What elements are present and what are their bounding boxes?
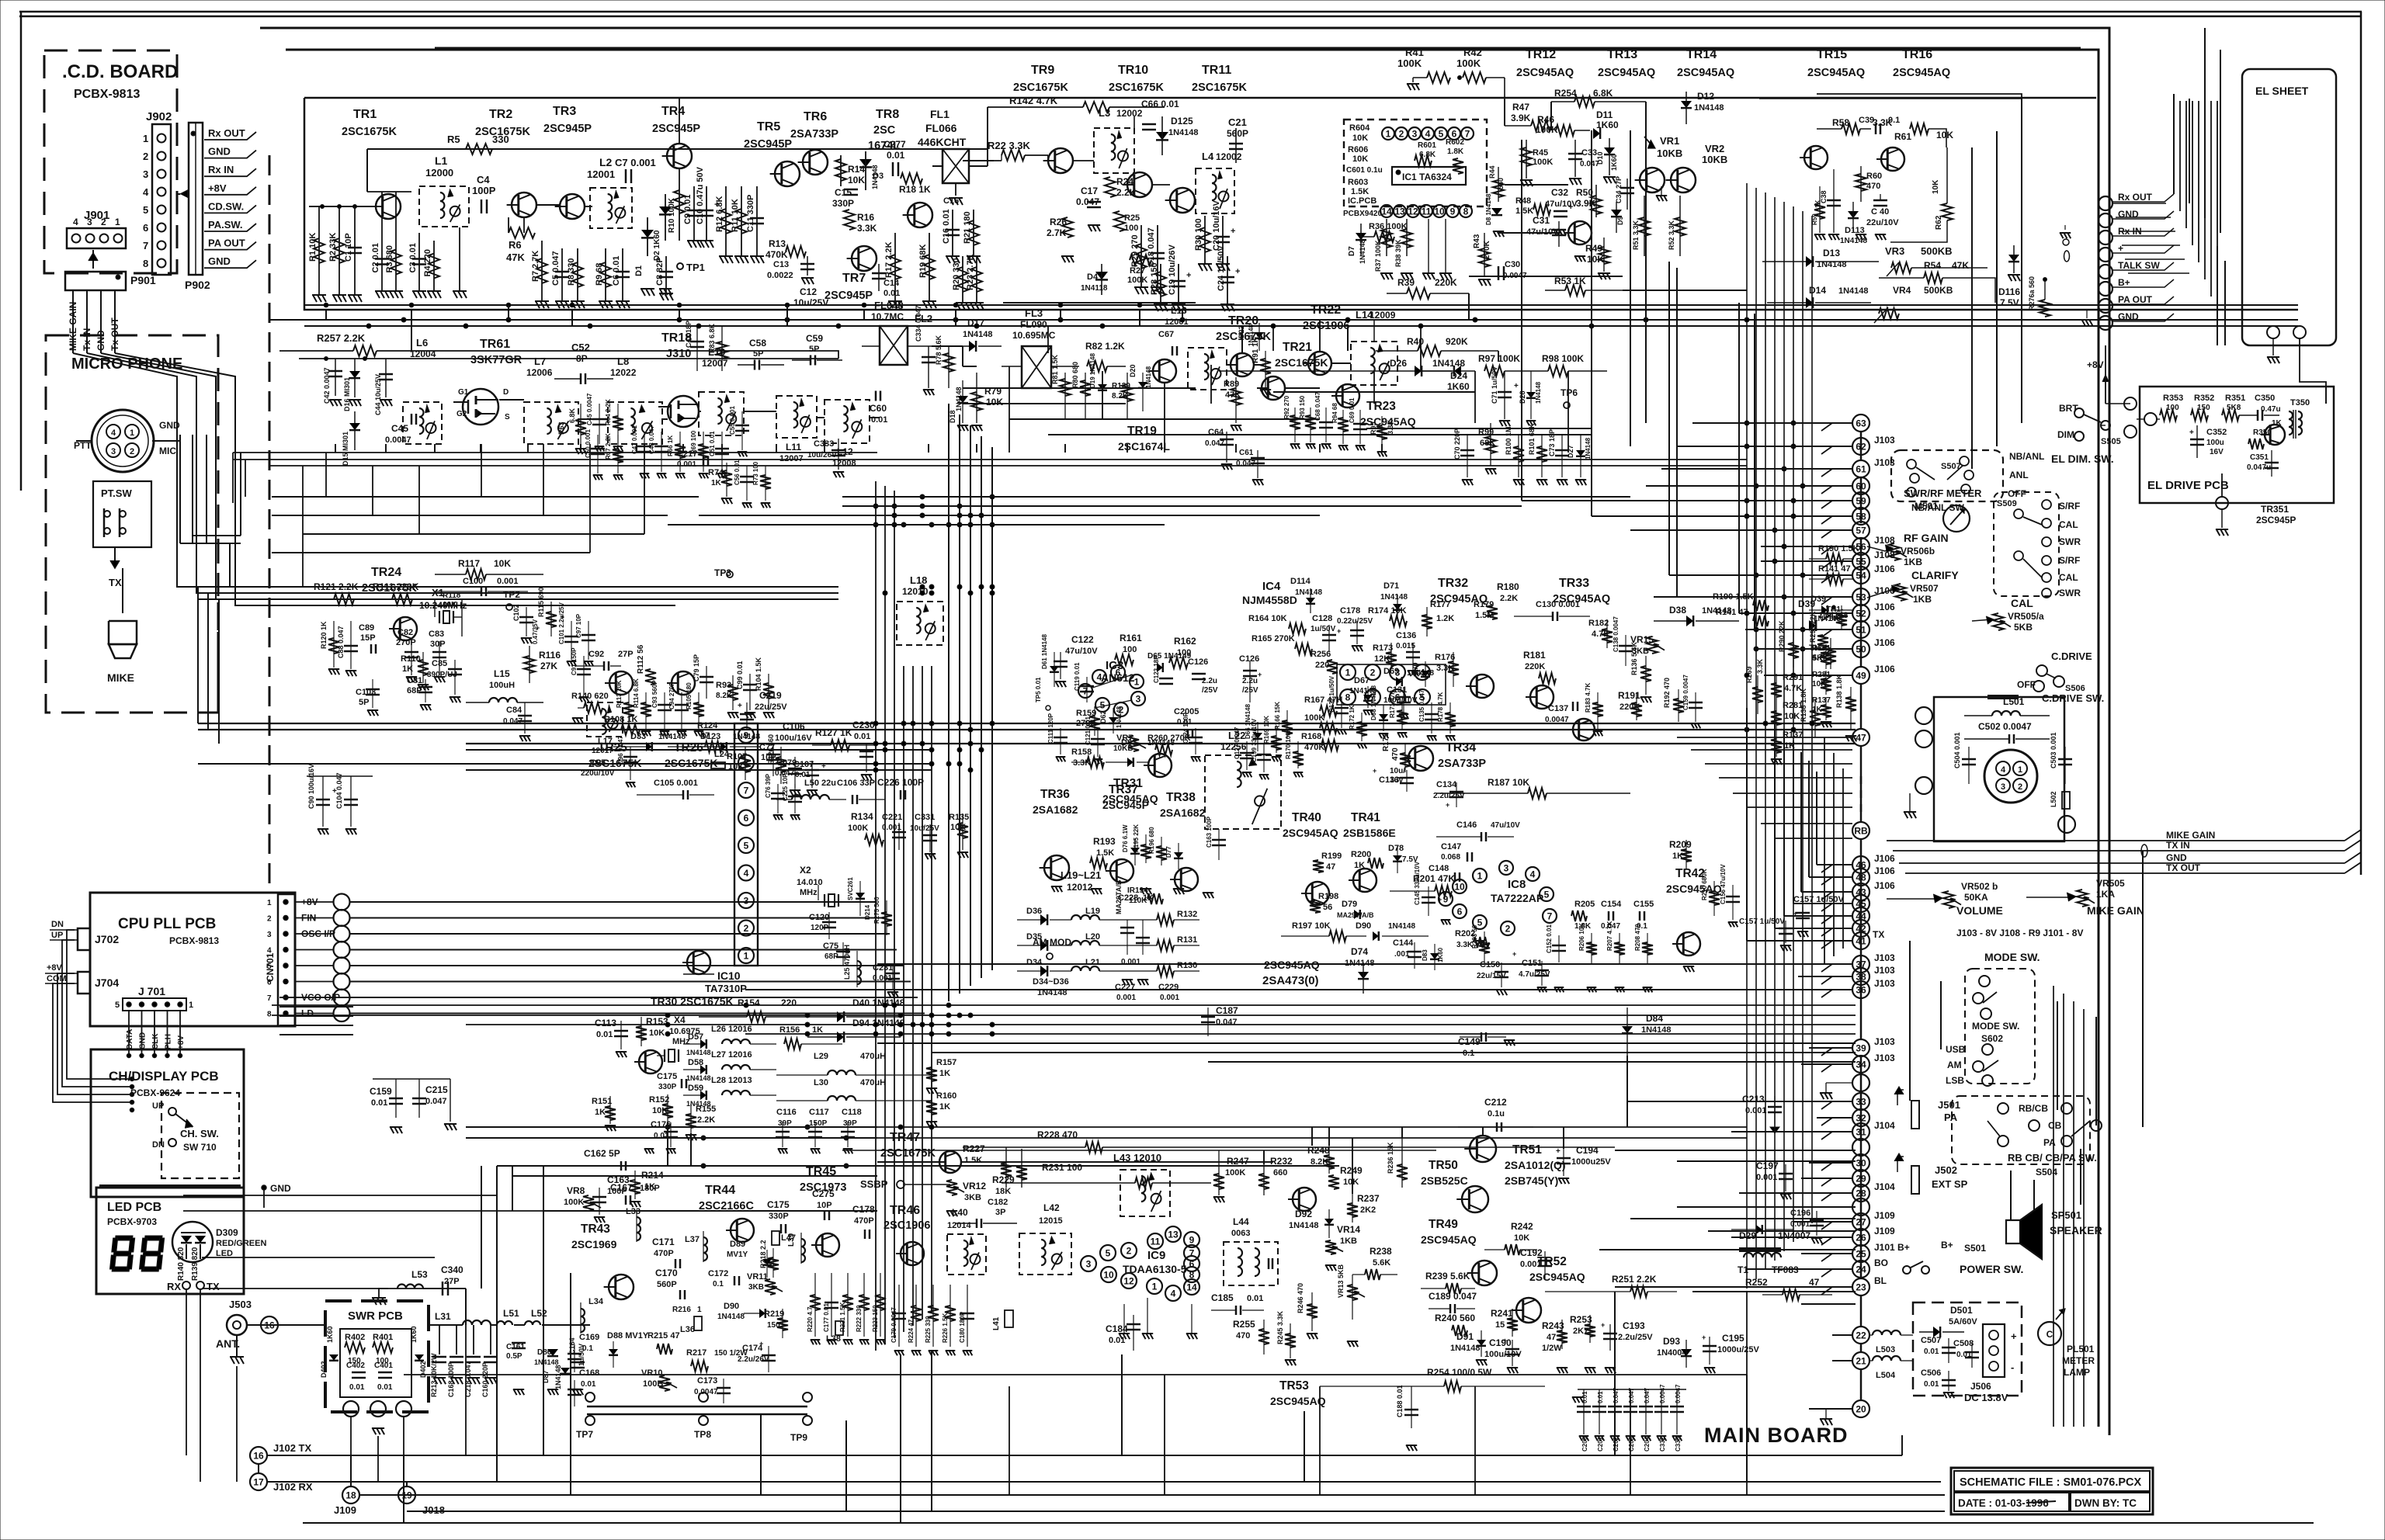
svg-text:C52: C52 [571, 342, 590, 353]
svg-text:0.47u: 0.47u [2261, 405, 2281, 414]
svg-text:TR52: TR52 [1537, 1255, 1567, 1268]
svg-text:2SC945AQ: 2SC945AQ [1270, 1395, 1326, 1407]
svg-text:1: 1 [744, 951, 749, 962]
svg-text:C3 0.01: C3 0.01 [408, 243, 418, 273]
svg-text:49: 49 [1856, 671, 1866, 682]
svg-text:5P: 5P [359, 698, 369, 707]
D68 col [1370, 685, 1388, 731]
svg-text:100: 100 [1123, 645, 1137, 654]
svg-text:0.01: 0.01 [1597, 1391, 1604, 1403]
svg-text:TR2: TR2 [489, 108, 512, 121]
svg-text:R124: R124 [697, 721, 718, 730]
svg-text:500KB: 500KB [1924, 285, 1953, 296]
svg-text:C96 0.047: C96 0.047 [617, 736, 624, 765]
svg-text:8: 8 [1463, 206, 1469, 217]
svg-text:C92: C92 [588, 650, 604, 659]
svg-text:1K60: 1K60 [1437, 947, 1444, 962]
C10 col [696, 166, 719, 248]
svg-text:10KB: 10KB [1657, 147, 1682, 159]
C15 cap [832, 187, 858, 209]
svg-text:C185: C185 [1211, 1292, 1234, 1303]
svg-text:C136: C136 [1396, 631, 1416, 640]
svg-text:1N4148: 1N4148 [871, 165, 879, 189]
svg-text:C146: C146 [1456, 820, 1477, 830]
C106 label [775, 721, 877, 751]
svg-text:R401: R401 [373, 1333, 393, 1342]
R199 label [1313, 852, 1342, 872]
svg-text:10K: 10K [494, 558, 511, 569]
svg-text:6: 6 [744, 813, 749, 824]
mic labels [74, 420, 180, 456]
C6 col [612, 248, 630, 308]
svg-text:S602: S602 [1981, 1033, 2003, 1044]
C231 label [873, 963, 900, 997]
C14 cap [872, 264, 900, 298]
C83 cap [429, 630, 446, 675]
svg-text:R231 100: R231 100 [1042, 1162, 1082, 1173]
svg-text:4: 4 [73, 217, 78, 227]
C75 label [823, 942, 850, 966]
R166 col [1274, 702, 1293, 739]
svg-text:LSB: LSB [1946, 1075, 1964, 1086]
svg-text:C184: C184 [1106, 1323, 1128, 1334]
D113 diode [1840, 202, 1867, 245]
D13 row [1762, 248, 1879, 269]
label TR44 [699, 1184, 754, 1212]
svg-text:R164 10K: R164 10K [1248, 614, 1287, 623]
NB/ANL labels [1911, 451, 2044, 513]
svg-text:+: + [1235, 267, 1240, 276]
svg-text:2SA1012(Q): 2SA1012(Q) [1505, 1159, 1566, 1171]
svg-text:S/RF: S/RF [2059, 501, 2080, 512]
R48 C32 [1515, 187, 1578, 217]
C99 0.01 [736, 661, 757, 718]
meter lamp PL501 [2038, 1309, 2065, 1345]
svg-text:3: 3 [1412, 129, 1418, 140]
AM MOD label [1033, 937, 1071, 959]
transistor TR30b [634, 1050, 662, 1073]
svg-text:C195: C195 [1722, 1333, 1744, 1344]
svg-text:FL3: FL3 [1025, 307, 1043, 319]
svg-text:2: 2 [744, 923, 749, 934]
left column verticals [466, 1122, 691, 1325]
svg-text:C213: C213 [1742, 1094, 1765, 1105]
svg-text:R141 47: R141 47 [1818, 564, 1851, 574]
svg-text:C402: C402 [346, 1361, 365, 1370]
svg-text:PCBX-9813: PCBX-9813 [74, 88, 140, 101]
svg-text:6: 6 [1116, 668, 1121, 678]
filter FL1 [932, 149, 988, 205]
svg-text:R151: R151 [592, 1097, 612, 1106]
L41 label [992, 1310, 1013, 1330]
svg-text:C154: C154 [1601, 900, 1622, 909]
svg-text:7: 7 [1465, 129, 1470, 140]
svg-text:FL090: FL090 [1020, 319, 1047, 330]
svg-text:R162: R162 [1174, 636, 1196, 647]
svg-text:L28 12013: L28 12013 [711, 1076, 752, 1085]
svg-text:MA29WA/B: MA29WA/B [1337, 911, 1374, 919]
svg-text:47u/10V: 47u/10V [1065, 647, 1098, 656]
svg-text:R350: R350 [2253, 428, 2272, 437]
svg-text:D36: D36 [1026, 907, 1042, 916]
C126b label [1239, 654, 1262, 702]
svg-text:10: 10 [1434, 206, 1445, 217]
CH.SW contacts [152, 1101, 193, 1150]
svg-text:C71 1u/50V: C71 1u/50V [1491, 366, 1498, 404]
svg-text:13: 13 [1394, 206, 1405, 217]
label TR42 [1666, 867, 1722, 895]
R248 label [1307, 1145, 1335, 1174]
R237 label [1347, 1193, 1380, 1223]
wire junction dots [130, 1077, 134, 1112]
R247 label [1213, 1150, 1249, 1202]
transistor TR13d [1635, 168, 1665, 192]
label TR45 [800, 1165, 846, 1194]
svg-text:18K: 18K [995, 1187, 1011, 1196]
C172 label [708, 1269, 739, 1289]
transistor TR38d [1170, 868, 1198, 891]
supply wire 462 [299, 357, 838, 361]
svg-text:EL DRIVE PCB: EL DRIVE PCB [2147, 479, 2229, 492]
svg-text:Rx OUT: Rx OUT [2118, 192, 2153, 203]
S509 contacts2 [2014, 551, 2081, 598]
el mid wires [2217, 246, 2225, 345]
svg-text:TR24: TR24 [371, 566, 401, 579]
svg-text:10K: 10K [1932, 179, 1940, 194]
GND stub [262, 1183, 291, 1208]
svg-text:R352: R352 [2194, 394, 2214, 403]
svg-text:3P: 3P [995, 1208, 1005, 1217]
svg-text:GND: GND [270, 1183, 291, 1194]
pin gnds [1422, 219, 1452, 279]
C136 label [1396, 631, 1420, 676]
label TR19 [1118, 425, 1170, 453]
svg-text:R69 100: R69 100 [690, 430, 697, 454]
diode D1 [634, 217, 654, 296]
svg-text:P901: P901 [130, 274, 156, 286]
svg-text:C178: C178 [852, 1204, 875, 1215]
transistor TR41d [1349, 869, 1376, 892]
svg-text:1K60: 1K60 [326, 1326, 334, 1343]
svg-text:+: + [1373, 767, 1376, 775]
CN701 long wires [349, 902, 925, 1014]
D114 label [1290, 577, 1322, 613]
R246 col [1297, 1283, 1317, 1339]
svg-text:C10 0.47u 50V: C10 0.47u 50V [696, 166, 705, 224]
bottom verticals [404, 1166, 1747, 1523]
C226 label [877, 777, 924, 799]
svg-text:C68 0.047: C68 0.047 [1314, 392, 1321, 421]
lower left wires [183, 1195, 543, 1289]
svg-text:R39: R39 [1397, 277, 1415, 288]
svg-text:11: 11 [1151, 1237, 1161, 1247]
transistor TR14d [1666, 168, 1696, 192]
svg-text:B+: B+ [2118, 277, 2130, 288]
main board frame top dashed segment [435, 47, 2081, 50]
label TR23 [1360, 400, 1416, 428]
svg-text:R353: R353 [2163, 394, 2183, 403]
svg-text:D70: D70 [1411, 662, 1419, 675]
svg-text:1N4148: 1N4148 [1289, 1221, 1319, 1230]
vertical bundle left mid [198, 587, 219, 744]
svg-text:-: - [2011, 1361, 2014, 1373]
svg-text:TR46: TR46 [890, 1204, 920, 1217]
PT.SW box [93, 481, 151, 547]
svg-text:R28 150: R28 150 [1150, 262, 1159, 295]
ic1 area wires [1003, 185, 1747, 303]
MICRO PHONE title [71, 356, 182, 373]
C197 label [1756, 1160, 1793, 1199]
svg-text:C157 1u/50V: C157 1u/50V [1739, 917, 1785, 926]
svg-text:TR351: TR351 [2261, 504, 2289, 515]
svg-text:0.01: 0.01 [871, 415, 887, 425]
svg-text:10K: 10K [1784, 712, 1800, 721]
IC4 pin circles [1337, 664, 1446, 705]
svg-text:+: + [821, 762, 826, 771]
C134 label [1433, 780, 1465, 809]
svg-text:R351: R351 [2225, 394, 2245, 403]
wire tr16 row [1759, 94, 2022, 99]
C122 label [1054, 634, 1098, 687]
svg-text:C31: C31 [1533, 215, 1550, 226]
R168 label [1301, 732, 1338, 752]
svg-text:1N4148: 1N4148 [1147, 739, 1175, 747]
svg-text:2.7K: 2.7K [1047, 227, 1067, 238]
svg-text:C45 0.0047: C45 0.0047 [586, 393, 593, 425]
D24 diode [1421, 366, 1470, 392]
wire to TR24 area [248, 599, 307, 605]
C77 label [759, 743, 780, 776]
R170 col [1285, 727, 1304, 768]
vertical bundle left mid [198, 587, 219, 744]
TR45 emitter cluster [807, 1273, 886, 1344]
L17 box [587, 702, 623, 755]
svg-text:C21: C21 [1228, 116, 1247, 128]
wire FL2 to FL3 [932, 346, 977, 366]
svg-text:PA: PA [1944, 1112, 1958, 1123]
svg-text:11: 11 [1422, 206, 1432, 217]
svg-text:C137: C137 [1548, 704, 1568, 713]
transistor TR21d [1257, 376, 1285, 400]
C227 C229 labels [1115, 983, 1179, 1002]
bus wire y393 [304, 304, 2298, 306]
chain vertical wire [1860, 432, 1863, 1401]
svg-text:SWR: SWR [2059, 588, 2081, 598]
svg-text:C138 0.0047: C138 0.0047 [1613, 616, 1620, 652]
R100 cluster [1505, 426, 1524, 477]
svg-text:14: 14 [1186, 1282, 1197, 1293]
svg-text:0.47/35V: 0.47/35V [532, 619, 539, 644]
svg-text:SW 710: SW 710 [183, 1142, 217, 1153]
svg-text:C168 100P: C168 100P [447, 1362, 455, 1397]
R140 R139 labels [177, 1247, 200, 1281]
chain feeder wires upper [1522, 423, 1852, 675]
wire TR61 drain [499, 400, 668, 419]
connector chain circles [1852, 414, 1869, 1417]
R260 label [1147, 734, 1191, 755]
svg-text:2SC945AQ: 2SC945AQ [1516, 67, 1574, 79]
transistor TR2 [507, 192, 536, 217]
C277 cap [884, 139, 906, 176]
TR30 transistor [682, 951, 714, 974]
2SC945AQ 2SA473 label [1262, 959, 1320, 987]
mid bus lines [198, 723, 1856, 770]
label TR18 [661, 331, 692, 360]
svg-text:R12 6.8K: R12 6.8K [715, 196, 724, 232]
svg-text:12: 12 [1123, 1276, 1134, 1287]
svg-text:R116: R116 [539, 650, 561, 661]
svg-text:C601 0.1u: C601 0.1u [1346, 166, 1383, 175]
C38 C37 cluster [1811, 169, 1841, 233]
C147 label [1441, 842, 1472, 862]
transistor TR37d [1106, 859, 1133, 883]
RX section frame [304, 98, 2298, 310]
svg-text:3KB: 3KB [964, 1193, 981, 1202]
svg-text:+: + [2011, 1330, 2017, 1342]
svg-text:C401: C401 [374, 1361, 393, 1370]
svg-text:5: 5 [1100, 700, 1106, 711]
svg-text:L37: L37 [685, 1235, 700, 1244]
svg-text:R10 100K: R10 100K [668, 197, 676, 233]
R182 label [1588, 619, 1613, 648]
svg-text:220K: 220K [1525, 662, 1545, 671]
svg-text:R9 68: R9 68 [595, 263, 604, 286]
IC8 pins [1439, 861, 1557, 935]
svg-text:+: + [1568, 203, 1573, 212]
R126 col [767, 734, 786, 784]
svg-text:SVC261: SVC261 [847, 877, 854, 900]
svg-text:AM: AM [1947, 1060, 1962, 1070]
label TR34 [1438, 741, 1486, 770]
svg-text:B+: B+ [1941, 1240, 1953, 1250]
svg-text:L40: L40 [952, 1207, 968, 1218]
svg-text:ANL: ANL [2009, 470, 2029, 480]
svg-text:R171 47K: R171 47K [1389, 690, 1396, 718]
svg-text:R82 1.2K: R82 1.2K [1085, 341, 1125, 352]
svg-text:TX: TX [207, 1281, 220, 1292]
gnd 20 [1820, 1409, 1852, 1425]
svg-text:PA OUT: PA OUT [2118, 294, 2153, 305]
svg-text:0.047: 0.047 [1216, 1018, 1238, 1027]
resistor R1 [308, 206, 326, 302]
svg-text:VR14: VR14 [1337, 1224, 1360, 1235]
R23 col [966, 254, 984, 310]
svg-text:2SC1675K: 2SC1675K [880, 1147, 936, 1160]
R7 col [531, 241, 549, 308]
el top wires [2174, 28, 2220, 233]
mike symbol [107, 621, 137, 684]
svg-text:PL501: PL501 [2067, 1344, 2095, 1354]
svg-text:C58: C58 [749, 338, 766, 349]
C106 33P [837, 779, 885, 804]
svg-text:R142 4.7K: R142 4.7K [1009, 95, 1058, 106]
svg-text:D74: D74 [1351, 946, 1368, 957]
svg-text:1KA: 1KA [2096, 889, 2115, 900]
svg-text:1KB: 1KB [1913, 594, 1932, 605]
VR7 label [1113, 734, 1146, 753]
svg-text:BL: BL [1874, 1275, 1887, 1286]
svg-text:J103 - 8V J108 - R9 J101 -: J103 - 8V J108 - R9 J101 - 8V [1956, 928, 2083, 938]
CLARIFY label [1910, 569, 1959, 605]
svg-text:1: 1 [1134, 677, 1140, 688]
svg-text:R210 680K: R210 680K [1701, 869, 1708, 900]
svg-text:D19 1N4148: D19 1N4148 [1089, 353, 1096, 388]
R79 resistor [971, 373, 1003, 423]
svg-text:TR14: TR14 [1686, 48, 1717, 61]
svg-text:C70 220P: C70 220P [1453, 428, 1461, 460]
R232 label [1258, 1150, 1293, 1195]
IF transformer L12 [825, 400, 870, 468]
VR10 label [641, 1368, 677, 1391]
D7 diode [1348, 224, 1366, 264]
svg-text:R22 3.3K: R22 3.3K [988, 140, 1031, 151]
svg-text:EL DIM. SW.: EL DIM. SW. [2051, 453, 2114, 465]
svg-text:NB/ANL: NB/ANL [2009, 451, 2044, 462]
svg-text:5P: 5P [809, 345, 819, 354]
svg-text:C149: C149 [1458, 1036, 1481, 1047]
svg-text:R604: R604 [1349, 123, 1370, 133]
svg-text:+: + [1231, 227, 1235, 236]
transistor TR25d [605, 671, 633, 695]
C131 label [1383, 685, 1418, 713]
svg-text:9: 9 [1189, 1235, 1195, 1246]
D76 label [1122, 824, 1140, 865]
svg-text:D114: D114 [1290, 577, 1311, 586]
R49 resistor [1585, 238, 1610, 279]
C88 col [337, 621, 358, 669]
svg-text:L11: L11 [786, 442, 801, 453]
R54 row [1879, 260, 1995, 303]
svg-text:IC4: IC4 [1262, 580, 1281, 593]
svg-text:C182: C182 [988, 1198, 1008, 1207]
power switch [1903, 1240, 2023, 1275]
svg-text:R7 2.7K: R7 2.7K [531, 251, 540, 282]
TP3 point [714, 567, 733, 578]
right switch verticals [1910, 851, 2143, 1220]
svg-text:2: 2 [1370, 668, 1376, 678]
bottom bus wire 1947 [407, 1511, 1945, 1512]
R257 resistor [279, 332, 838, 359]
svg-text:R176: R176 [1435, 653, 1455, 662]
svg-text:0.001: 0.001 [1116, 994, 1136, 1002]
svg-text:0.047: 0.047 [1644, 1387, 1651, 1403]
R179 label [1474, 600, 1494, 620]
NB/ANL contacts [1907, 456, 1974, 497]
wire right edge bundle vertical [2360, 12, 2362, 875]
svg-text:R97 100K: R97 100K [1478, 353, 1520, 364]
R24 res [1105, 176, 1137, 198]
svg-text:R89: R89 [1224, 380, 1239, 389]
wires CPU to CH PCB [53, 930, 132, 1102]
R197 row [1281, 921, 1366, 942]
transistor TR19d [1148, 359, 1176, 383]
vertical bundle center2 [949, 404, 992, 1001]
svg-text:C170: C170 [655, 1268, 678, 1278]
R69 cluster [690, 430, 729, 478]
svg-text:1: 1 [189, 1001, 193, 1010]
svg-text:C7 0.001: C7 0.001 [615, 157, 656, 168]
svg-text:C17: C17 [1081, 186, 1098, 196]
svg-text:R223 150: R223 150 [872, 1305, 879, 1332]
C145 col [1414, 861, 1442, 916]
gnd cluster IF [957, 390, 1271, 431]
svg-text:1K: 1K [711, 479, 722, 487]
svg-text:0.001: 0.001 [1121, 958, 1140, 966]
svg-text:9: 9 [1450, 206, 1456, 217]
svg-text:J103: J103 [1874, 1036, 1895, 1047]
label TR20 [1216, 314, 1271, 343]
svg-text:10K: 10K [443, 601, 457, 609]
